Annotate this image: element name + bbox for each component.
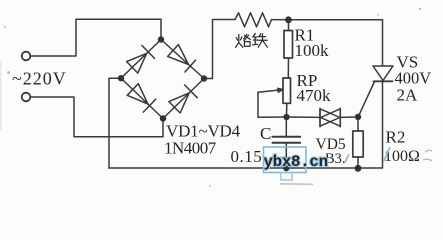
bridge diode VD1 top-left: [121, 40, 161, 79]
wire upper L-in: [31, 19, 162, 56]
terminal upper: [22, 52, 31, 61]
bridge diode VD3 bottom-left: [121, 78, 163, 118]
wire bottom bus: [109, 82, 383, 169]
resistor R1: [284, 20, 293, 78]
svg-text:470k: 470k: [297, 86, 332, 105]
wire diac to node C: [340, 116, 358, 118]
svg-text:B3.: B3.: [325, 151, 346, 167]
wire wiper rail to node B: [258, 116, 287, 118]
node bridge top: [158, 36, 164, 42]
wire zigzag to node A: [272, 19, 289, 21]
capacitor C: [273, 117, 301, 168]
wire node B to diac: [287, 116, 321, 118]
thyristor VS: [358, 66, 393, 117]
wire node A to top right corner: [289, 20, 383, 66]
svg-text:2A: 2A: [397, 86, 419, 105]
resistor heater zigzag (load): [235, 13, 272, 27]
svg-text:~220V: ~220V: [12, 68, 67, 88]
node C bottom bus: [283, 165, 289, 171]
node R2 bottom bus: [355, 165, 362, 172]
node bridge bottom: [160, 115, 166, 121]
watermark blue slash 2: [384, 147, 390, 161]
bridge diode VD4 bottom-right: [163, 79, 204, 119]
watermark blue box: [264, 147, 307, 173]
node bridge left: [118, 75, 124, 81]
node bridge right: [201, 75, 207, 81]
potentiometer RP: [258, 78, 291, 117]
svg-text:0.15: 0.15: [231, 147, 263, 166]
watermark blue slash 1: [344, 155, 349, 164]
watermark blue squiggle right: [423, 150, 432, 161]
wire lower N-in: [31, 97, 164, 137]
svg-text:1N4007: 1N4007: [164, 138, 217, 157]
junction node dots: [118, 16, 362, 171]
svg-text:100k: 100k: [295, 41, 330, 60]
wire bridge right to top rail: [204, 20, 235, 79]
resistor R2: [353, 117, 363, 168]
wire bridge left to bottom bus: [109, 78, 121, 168]
diac VD5: [320, 108, 340, 126]
node B (RP/C): [283, 114, 289, 120]
terminal lower: [22, 93, 31, 102]
svg-text:R2: R2: [386, 128, 406, 147]
scan smudges: [0, 60, 2, 130]
watermark blue tick: [281, 173, 292, 181]
node C (gate/R2): [355, 114, 361, 120]
label heater 烙铁 (hand-drawn): [236, 34, 268, 48]
svg-text:ybx8.cn: ybx8.cn: [264, 153, 328, 171]
svg-text:C: C: [260, 124, 271, 143]
node A (R1 top): [285, 16, 292, 23]
bridge diode VD2 top-right: [161, 40, 204, 79]
